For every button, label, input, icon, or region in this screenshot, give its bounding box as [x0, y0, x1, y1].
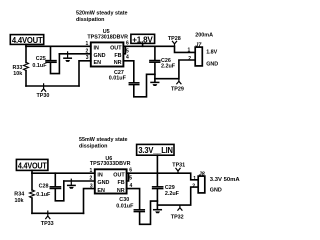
svg-text:TP32: TP32: [171, 214, 184, 220]
svg-text:2: 2: [90, 176, 93, 182]
svg-text:NR: NR: [117, 188, 125, 194]
svg-text:C29: C29: [165, 185, 175, 191]
svg-text:0.01uF: 0.01uF: [109, 76, 127, 82]
svg-text:GND: GND: [206, 61, 218, 67]
svg-text:2: 2: [192, 183, 195, 189]
svg-text:2.2uF: 2.2uF: [161, 64, 176, 70]
svg-text:200mA: 200mA: [195, 33, 213, 39]
svg-text:TPS73033DBVR: TPS73033DBVR: [90, 161, 131, 167]
svg-text:4.4VOUT: 4.4VOUT: [18, 162, 47, 171]
svg-text:GND: GND: [97, 180, 109, 186]
svg-text:NR: NR: [114, 60, 122, 66]
svg-text:55mW steady state: 55mW steady state: [79, 137, 128, 143]
svg-text:4: 4: [126, 55, 129, 61]
svg-text:J7: J7: [195, 43, 202, 49]
svg-text:1.8V: 1.8V: [206, 50, 217, 56]
svg-text:+1.8V: +1.8V: [132, 36, 153, 45]
svg-text:R34: R34: [14, 191, 24, 197]
svg-text:0.1uF: 0.1uF: [36, 192, 51, 198]
svg-text:6: 6: [129, 168, 132, 174]
svg-text:dissipation: dissipation: [79, 144, 107, 150]
svg-text:3: 3: [86, 55, 89, 61]
svg-text:TP33: TP33: [41, 221, 54, 227]
svg-text:IN: IN: [97, 172, 102, 178]
svg-text:520mW steady state: 520mW steady state: [76, 10, 128, 16]
svg-text:5: 5: [126, 49, 129, 55]
svg-text:1: 1: [86, 41, 89, 47]
svg-text:OUT: OUT: [113, 172, 125, 178]
svg-text:FB: FB: [118, 180, 125, 186]
svg-text:TPS73018DBVR: TPS73018DBVR: [87, 35, 128, 41]
svg-text:6: 6: [126, 41, 129, 47]
svg-text:C30: C30: [119, 197, 129, 203]
svg-text:C28: C28: [39, 183, 49, 189]
svg-text:EN: EN: [94, 60, 102, 66]
svg-text:10k: 10k: [13, 71, 22, 77]
svg-text:0.01uF: 0.01uF: [116, 203, 134, 209]
svg-text:dissipation: dissipation: [76, 17, 104, 23]
svg-text:TP29: TP29: [171, 87, 184, 93]
svg-text:2.2uF: 2.2uF: [165, 191, 180, 197]
svg-text:1: 1: [90, 168, 93, 174]
svg-text:0.1uF: 0.1uF: [32, 63, 47, 69]
svg-text:2: 2: [86, 48, 89, 54]
svg-text:GND: GND: [210, 188, 222, 194]
svg-text:TP30: TP30: [37, 93, 50, 99]
svg-text:3: 3: [90, 183, 93, 189]
svg-text:TP31: TP31: [172, 163, 185, 169]
svg-text:OUT: OUT: [110, 45, 122, 51]
svg-text:J8: J8: [199, 171, 205, 177]
svg-text:TP28: TP28: [168, 36, 181, 42]
svg-text:4: 4: [130, 183, 133, 189]
svg-text:4.4VOUT: 4.4VOUT: [12, 36, 43, 45]
svg-text:1: 1: [193, 176, 196, 182]
svg-text:FB: FB: [114, 53, 121, 59]
svg-text:GND: GND: [94, 53, 106, 59]
svg-text:EN: EN: [97, 188, 105, 194]
svg-text:3.3V__LIN: 3.3V__LIN: [138, 146, 173, 155]
svg-text:1: 1: [188, 47, 191, 53]
svg-text:2: 2: [188, 56, 191, 62]
svg-text:10k: 10k: [15, 198, 24, 204]
svg-text:3.3V 50mA: 3.3V 50mA: [210, 177, 240, 183]
svg-text:IN: IN: [94, 45, 99, 51]
svg-text:C25: C25: [36, 56, 46, 62]
svg-text:5: 5: [129, 176, 132, 182]
